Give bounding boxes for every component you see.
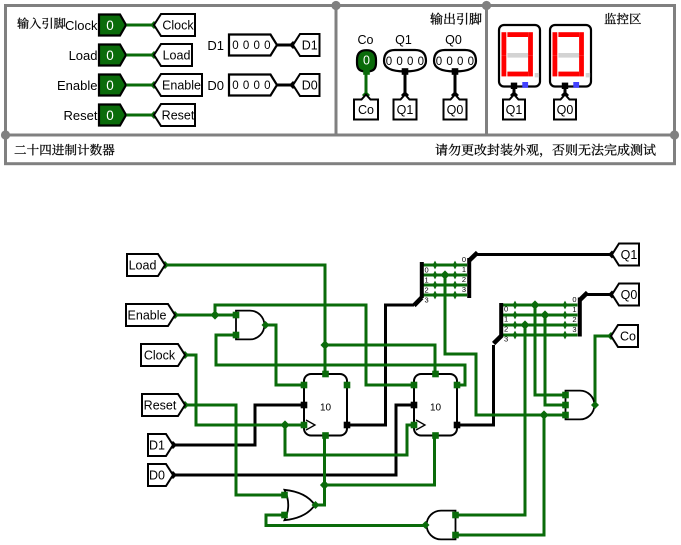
- output pin Q1 value 0000: [384, 50, 428, 71]
- frame junction dot: [331, 1, 340, 10]
- node Enable tunnel point: [150, 81, 158, 89]
- port display input: [562, 83, 568, 89]
- svg-text:1: 1: [462, 265, 466, 274]
- splitter S2R spine diagonal: [580, 293, 588, 301]
- frame divider vertical 2: [485, 4, 488, 135]
- input pin Reset value 0: [99, 105, 126, 126]
- svg-text:10: 10: [430, 403, 442, 414]
- tunnel Load: [154, 44, 192, 66]
- CTR1 port clock: [301, 422, 308, 429]
- S1 wire joint: [433, 291, 438, 300]
- junction S2 bit0 tap: [530, 300, 539, 309]
- svg-text:Q0: Q0: [621, 288, 638, 302]
- svg-text:Clock: Clock: [144, 349, 176, 363]
- S1 wire joint: [453, 271, 458, 280]
- svg-text:3: 3: [504, 335, 508, 344]
- svg-text:Clock: Clock: [162, 19, 194, 33]
- S2R pin labels: [572, 295, 576, 334]
- 7-segment display Q1 showing 0: [499, 25, 540, 87]
- input pin Enable value 0: [99, 75, 126, 96]
- frame outer border: [6, 6, 675, 164]
- svg-text:Reset: Reset: [144, 399, 177, 413]
- CTR1 port data: [301, 402, 308, 409]
- CTR1 port enable: [301, 382, 308, 389]
- svg-text:Load: Load: [69, 48, 98, 63]
- splitter S2L bar: [499, 303, 503, 338]
- node Co point: [607, 332, 615, 340]
- tunnel Load (circuit): [127, 254, 165, 276]
- svg-text:2: 2: [462, 275, 466, 284]
- svg-text:D1: D1: [207, 38, 224, 53]
- node display tunnel point Q1: [510, 91, 518, 99]
- splitter S1R bar: [467, 258, 471, 298]
- svg-text:Co: Co: [358, 33, 374, 47]
- tunnel Q1 (circuit): [612, 244, 639, 266]
- U3 input 2: [452, 532, 459, 539]
- U2 input 1: [281, 492, 288, 499]
- wire Reset net: [185, 405, 283, 495]
- svg-text:3: 3: [572, 325, 576, 334]
- svg-text:Reset: Reset: [64, 108, 98, 123]
- AND gate U1 (enable gating): [236, 311, 264, 340]
- svg-text:Q1: Q1: [395, 33, 412, 47]
- caption 请勿更改封装外观，否则无法完成测试: [435, 144, 655, 157]
- svg-text:Enable: Enable: [162, 79, 201, 93]
- frame divider vertical 1: [335, 4, 338, 135]
- AND gate U3 (facing left): [427, 511, 456, 540]
- wire OR U2 output to counter resets: [315, 435, 325, 505]
- splitter S2L spine diagonal: [494, 336, 502, 344]
- port display input: [511, 83, 517, 89]
- CTR2 port clock: [411, 422, 418, 429]
- svg-text:0: 0: [106, 108, 114, 123]
- pin unconnected (blue): [522, 82, 528, 88]
- wire counter1 Q bus: [347, 305, 414, 425]
- wire AND U4 output to Co: [595, 336, 611, 405]
- tunnel Q0 (circuit): [612, 284, 639, 306]
- wire S2 bit2 wire: [503, 324, 578, 327]
- S1R pin labels: [462, 255, 466, 294]
- svg-text:D0: D0: [149, 469, 165, 483]
- svg-text:0: 0: [106, 78, 114, 93]
- wire D0 pin to tunnel: [277, 84, 293, 87]
- tunnel Reset (circuit): [142, 394, 185, 416]
- input pin Clock value 0: [99, 15, 126, 36]
- CTR1 port carry: [344, 382, 351, 389]
- wire S2 bit2 tap to AND U3 input1: [456, 325, 525, 515]
- port Q1 pin: [402, 68, 409, 75]
- S2 wire joint: [563, 301, 568, 310]
- AND gate U4 (3-input, carry detect): [566, 391, 595, 420]
- tunnel Clock (circuit): [141, 344, 185, 366]
- svg-text:2: 2: [425, 286, 429, 295]
- splitter S1L bar: [420, 262, 424, 298]
- node Reset tunnel point: [150, 111, 158, 119]
- wire display wire Q1: [513, 89, 516, 95]
- wire Reset pin to tunnel: [127, 114, 155, 117]
- tunnel Q0 (panel): [444, 95, 467, 120]
- svg-text:D0: D0: [302, 79, 318, 93]
- junction OR output branch: [320, 480, 329, 489]
- frame junction dot: [670, 130, 679, 139]
- S1 wire joint: [433, 271, 438, 280]
- output pin Q0 value 0000: [434, 50, 478, 71]
- svg-text:Co: Co: [358, 103, 374, 117]
- panel title 监控区: [605, 13, 641, 24]
- svg-text:0: 0: [106, 48, 114, 63]
- tunnel Q1 (monitor): [503, 95, 525, 120]
- U3 input 1: [452, 512, 459, 519]
- svg-text:2: 2: [504, 325, 508, 334]
- node D1 point: [169, 441, 177, 449]
- CTR2 port enable: [411, 382, 418, 389]
- counter CTR2 (mod 10): [414, 374, 457, 436]
- U4 input 2: [562, 402, 569, 409]
- OR gate U2: [285, 490, 315, 520]
- junction S2 bit2 tap: [520, 320, 529, 329]
- svg-text:1: 1: [425, 276, 429, 285]
- S2 wire joint: [513, 321, 518, 330]
- svg-text:Load: Load: [163, 49, 191, 63]
- node Clock point: [181, 351, 189, 359]
- svg-text:Q1: Q1: [506, 103, 523, 117]
- wire D1 pin to tunnel: [277, 44, 293, 47]
- U3 output node: [422, 521, 430, 529]
- wire Clock branch to counter2 clock: [285, 425, 413, 455]
- tunnel Enable: [154, 74, 202, 96]
- caption 二十四进制计数器: [15, 144, 115, 156]
- node Load tunnel point: [150, 51, 158, 59]
- node Enable point: [171, 311, 179, 319]
- svg-text:Enable: Enable: [57, 78, 97, 93]
- wire display wire Q0: [564, 89, 567, 95]
- svg-text:0: 0: [363, 54, 370, 68]
- svg-text:Load: Load: [129, 259, 157, 273]
- CTR2 port clear(bottom): [432, 432, 439, 439]
- splitter S1R spine diagonal: [469, 253, 477, 261]
- CTR1 port load(top): [322, 371, 329, 378]
- frame divider horizontal: [4, 134, 676, 137]
- U4 input 1: [562, 392, 569, 399]
- svg-text:D1: D1: [149, 439, 165, 453]
- svg-text:0000: 0000: [436, 56, 478, 68]
- U4 input 3: [562, 412, 569, 419]
- node Clock tunnel point: [150, 21, 158, 29]
- S1L pin labels: [425, 266, 429, 305]
- wire AND U1 output to counter1 enable: [265, 325, 303, 385]
- tunnel Q1 (panel): [394, 95, 417, 120]
- S1 wire joint: [453, 291, 458, 300]
- U1 output node: [262, 321, 270, 329]
- wire S2 bit0 wire: [503, 304, 578, 307]
- node Load point: [161, 261, 169, 269]
- S1 wire joint: [453, 261, 458, 270]
- CTR1 port clear(bottom): [322, 432, 329, 439]
- CTR2 port data: [411, 402, 418, 409]
- node Reset point: [181, 401, 189, 409]
- node Q1 point: [608, 251, 616, 259]
- svg-text:Co: Co: [620, 330, 636, 344]
- S2 wire joint: [513, 331, 518, 340]
- wire Clock pin to tunnel: [127, 24, 155, 27]
- U2 output node: [312, 501, 320, 509]
- svg-text:0000: 0000: [232, 80, 274, 92]
- U1 input 1: [233, 312, 240, 319]
- panel title 输出引脚: [430, 13, 481, 25]
- wire Co pin to tunnel: [365, 73, 368, 95]
- svg-text:2: 2: [572, 315, 576, 324]
- panel title 输入引脚: [17, 17, 65, 28]
- wire S2 bit1 tap to AND U4 input2: [545, 315, 564, 405]
- svg-text:1: 1: [504, 315, 508, 324]
- wire S2 bit3 wire: [503, 334, 578, 337]
- tunnel Enable (circuit): [126, 304, 175, 326]
- splitter S1L spine diagonal: [414, 298, 422, 306]
- wire S2 bit1 wire: [503, 314, 578, 317]
- wire S1 bit1 tap to AND U4 input3: [445, 275, 564, 415]
- svg-text:3: 3: [425, 296, 429, 305]
- counter CTR1 (mod 10): [304, 374, 347, 436]
- junction Load branch: [320, 340, 329, 349]
- svg-text:0000: 0000: [386, 56, 428, 68]
- tunnel Reset: [154, 104, 195, 126]
- wire S1 bit2 wire: [423, 284, 467, 287]
- wire D1 bus: [173, 405, 303, 445]
- wire carry feedback to AND U1 input2: [216, 335, 465, 385]
- tunnel D1: [293, 34, 320, 56]
- wire counter2 Q bus: [457, 345, 494, 425]
- svg-text:0: 0: [462, 255, 466, 264]
- wire S1 bit3 wire: [423, 294, 467, 297]
- wire AND U3 output to OR input2: [266, 515, 425, 526]
- node Co tunnel point: [362, 91, 370, 99]
- CTR2 port load(top): [432, 371, 439, 378]
- S2 wire joint: [563, 321, 568, 330]
- U4 output node: [591, 401, 599, 409]
- port Co pin: [363, 68, 370, 75]
- wire S2 bit0 tap to AND U4 input1: [535, 305, 564, 395]
- svg-text:0000: 0000: [232, 40, 274, 52]
- svg-text:Q0: Q0: [557, 103, 574, 117]
- junction Enable/AND: [210, 310, 219, 319]
- node Q0 point: [608, 291, 616, 299]
- svg-text:Q0: Q0: [447, 103, 464, 117]
- port Q0 pin: [452, 68, 459, 75]
- frame junction dot: [1, 130, 10, 139]
- wire D0 bus: [173, 405, 413, 475]
- svg-text:Clock: Clock: [65, 18, 98, 33]
- node D0 point: [169, 471, 177, 479]
- input pin Load value 0: [99, 45, 126, 66]
- svg-text:D0: D0: [207, 78, 224, 93]
- splitter S2R bar: [578, 298, 582, 337]
- node Q0 tunnel point: [451, 91, 459, 99]
- junction S2 bit1 tap: [540, 310, 549, 319]
- svg-text:0: 0: [504, 305, 508, 314]
- CTR2 port carry: [454, 382, 461, 389]
- svg-text:Q1: Q1: [621, 248, 638, 262]
- S2L pin labels: [504, 305, 508, 344]
- wire tap branch to AND U3 input2: [456, 415, 544, 535]
- wire S1 bit1 wire: [423, 274, 467, 277]
- U2 input 2: [281, 512, 288, 519]
- wire Enable net: [175, 314, 234, 317]
- node display tunnel point Q0: [561, 91, 569, 99]
- wire Load net: [165, 265, 325, 374]
- wire splitter S1R root to Q1: [477, 253, 612, 256]
- output pin Co value 0: [357, 50, 376, 71]
- tunnel Q0 (monitor): [554, 95, 576, 120]
- wire Q1 pin to tunnel: [404, 73, 407, 95]
- S2 wire joint: [513, 311, 518, 320]
- input pin D1 value 0000: [229, 35, 277, 56]
- junction AND U4 input3 / U3 branch: [539, 410, 548, 419]
- pin unconnected (blue): [573, 82, 579, 88]
- wire Q0 pin to tunnel: [454, 73, 457, 95]
- svg-text:0: 0: [572, 295, 576, 304]
- tunnel Co (panel): [354, 95, 378, 120]
- tunnel D0 (circuit): [148, 464, 173, 486]
- S2 wire joint: [563, 331, 568, 340]
- svg-text:3: 3: [462, 285, 466, 294]
- wire Clock net: [185, 355, 303, 425]
- wire splitter S2R root to Q0: [587, 293, 612, 296]
- svg-text:0: 0: [106, 18, 114, 33]
- svg-text:Q1: Q1: [397, 103, 414, 117]
- svg-text:0: 0: [425, 266, 429, 275]
- junction S1 bit1 tap: [440, 270, 449, 279]
- U1 input 2: [233, 332, 240, 339]
- tunnel Clock: [154, 14, 195, 36]
- wire Enable pin to tunnel: [127, 84, 155, 87]
- S2 wire joint: [563, 311, 568, 320]
- svg-text:D1: D1: [302, 39, 318, 53]
- wire Load branch to counter2 top: [325, 345, 435, 374]
- svg-text:10: 10: [320, 403, 332, 414]
- wire Load pin to tunnel: [127, 54, 155, 57]
- junction Clock branch: [280, 420, 289, 429]
- svg-text:Enable: Enable: [128, 309, 167, 323]
- svg-text:Q0: Q0: [445, 33, 462, 47]
- tunnel Co (circuit): [611, 325, 638, 347]
- node D0 tunnel point: [289, 81, 297, 89]
- node Q1 tunnel point: [401, 91, 409, 99]
- S1 wire joint: [433, 281, 438, 290]
- S1 wire joint: [453, 281, 458, 290]
- input pin D0 value 0000: [229, 75, 277, 96]
- svg-text:Reset: Reset: [162, 109, 195, 123]
- wire Enable branch to counter2 enable: [215, 305, 413, 385]
- S1 wire joint: [433, 261, 438, 270]
- wire OR output branch to counter2 reset: [325, 435, 435, 485]
- tunnel D0: [293, 74, 320, 96]
- frame junction dot: [482, 1, 491, 10]
- tunnel D1 (circuit): [148, 434, 173, 456]
- 7-segment display Q0 showing 0: [550, 25, 591, 87]
- S2 wire joint: [513, 301, 518, 310]
- node D1 tunnel point: [289, 41, 297, 49]
- wire S1 bit0 wire: [423, 264, 467, 267]
- svg-text:1: 1: [572, 305, 576, 314]
- CTR1 port Q: [344, 422, 351, 429]
- CTR2 port Q: [454, 422, 461, 429]
